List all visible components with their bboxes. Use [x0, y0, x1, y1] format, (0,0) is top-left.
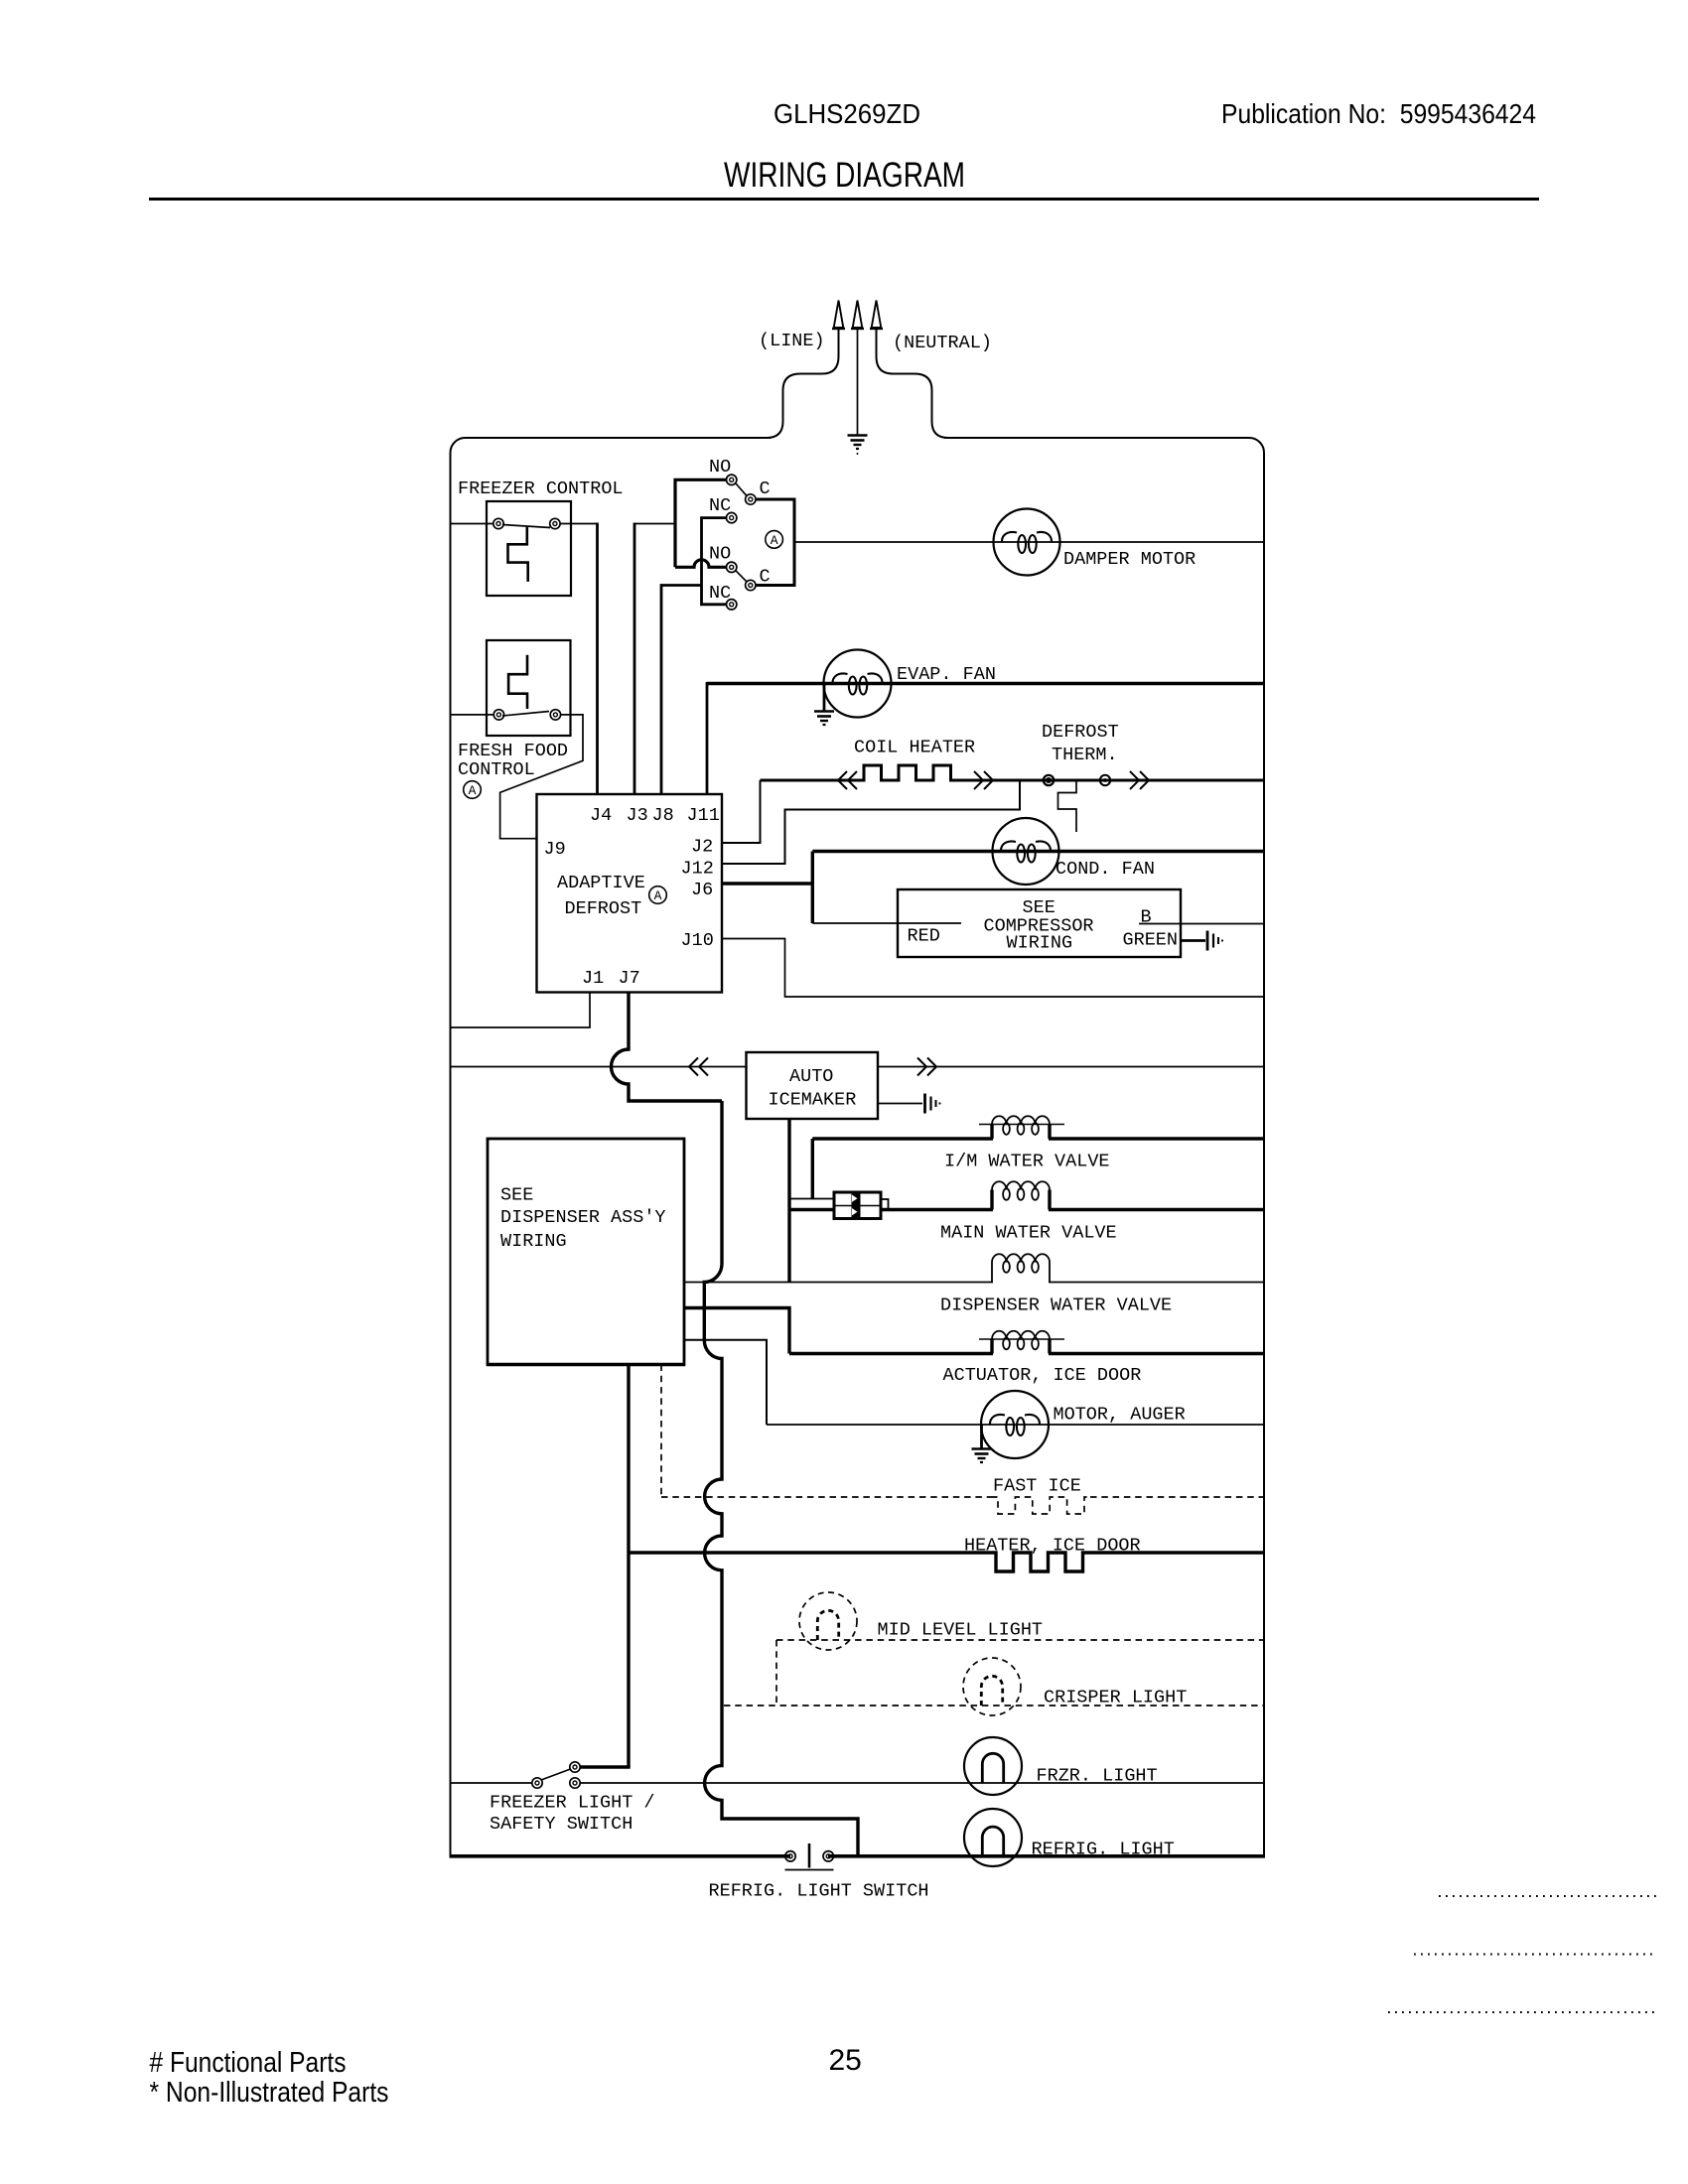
- svg-text:J10: J10: [681, 930, 714, 951]
- earth ground at auger motor: [980, 1425, 983, 1448]
- relay switch 1 C terminal: [746, 494, 756, 504]
- svg-text:GREEN: GREEN: [1123, 930, 1179, 951]
- svg-text:J8: J8: [652, 805, 674, 826]
- freezer control terminal left: [493, 518, 503, 528]
- wire J12 to therm: [722, 780, 1020, 864]
- svg-text:CRISPER LIGHT: CRISPER LIGHT: [1044, 1688, 1187, 1708]
- refrig light switch terminal left: [785, 1851, 795, 1861]
- svg-text:CONTROL: CONTROL: [458, 759, 535, 780]
- actuator ice door coil: [992, 1339, 1050, 1354]
- circled A fresh food: [464, 781, 482, 799]
- enclosure right and top edge: [944, 438, 1264, 1856]
- fresh food thermostat zigzag: [508, 655, 527, 709]
- freezer light lamp: [964, 1737, 1022, 1795]
- svg-text:J6: J6: [691, 880, 713, 900]
- heater ice door line: [629, 1551, 989, 1554]
- freezer control box: [487, 501, 571, 596]
- coil heater resistor: [857, 765, 961, 780]
- svg-text:GLHS269ZD: GLHS269ZD: [774, 98, 920, 129]
- ground prong: [853, 301, 863, 329]
- safety switch blade: [541, 1769, 571, 1780]
- wire J3 vertical: [633, 523, 636, 795]
- I/M water valve line: [812, 1137, 993, 1140]
- wire icemaker to right edge: [878, 1066, 1264, 1068]
- earth ground at plug: [857, 329, 859, 435]
- mid level light dashed circuit: [776, 1640, 1264, 1706]
- wire LINE prong to enclosure: [767, 329, 839, 438]
- safety switch terminal upper: [570, 1762, 580, 1772]
- wire left edge to safety switch: [451, 1782, 533, 1784]
- svg-text:J9: J9: [544, 839, 566, 860]
- LINE prong: [834, 301, 844, 329]
- wire safety switch to heater riser: [580, 1765, 631, 1768]
- freezer control terminal right: [550, 518, 560, 528]
- wire NC net to J8: [661, 586, 702, 795]
- coil heater line left part: [761, 779, 858, 782]
- svg-text:RED: RED: [908, 926, 940, 947]
- connector chevrons right: [974, 771, 993, 789]
- svg-text:C: C: [760, 478, 771, 499]
- check valve outlet tab: [881, 1199, 889, 1210]
- fresh food control box: [487, 640, 571, 736]
- freezer control switch blade: [502, 525, 550, 528]
- wire RED lead: [812, 922, 961, 924]
- wire actuator feed: [684, 1308, 789, 1354]
- dispenser water valve coil: [992, 1263, 1050, 1283]
- svg-text:(LINE): (LINE): [759, 331, 825, 351]
- motor auger line: [767, 1424, 1264, 1426]
- dispenser assembly box: [488, 1139, 684, 1365]
- compressor wiring box: [898, 889, 1181, 957]
- svg-text:MAIN WATER VALVE: MAIN WATER VALVE: [940, 1223, 1117, 1244]
- relay switch 1 NO terminal: [727, 475, 737, 484]
- defrost therm line: [961, 779, 1264, 782]
- dual check valve body: [834, 1192, 881, 1219]
- relay switch 1 blade: [736, 483, 747, 495]
- svg-text:A: A: [771, 533, 778, 548]
- wire check valve top port: [789, 1198, 834, 1200]
- svg-text:J7: J7: [619, 968, 640, 989]
- heater ice door resistor: [989, 1553, 1088, 1571]
- earth ground at evap fan: [823, 684, 826, 712]
- svg-text:COND. FAN: COND. FAN: [1055, 859, 1155, 880]
- wire J6 feed: [722, 852, 812, 924]
- mid level light lamp: [799, 1592, 857, 1650]
- fast ice dashed branch: [661, 1365, 1264, 1515]
- wire J11 vertical: [706, 682, 709, 794]
- svg-text:J1: J1: [582, 968, 604, 989]
- svg-text:J4: J4: [590, 805, 612, 826]
- svg-text:HEATER, ICE DOOR: HEATER, ICE DOOR: [964, 1536, 1141, 1557]
- actuator ice door line: [789, 1352, 993, 1355]
- svg-text:WIRING: WIRING: [1007, 933, 1073, 954]
- freezer control thermostat zigzag: [508, 527, 528, 582]
- svg-text:MOTOR, AUGER: MOTOR, AUGER: [1054, 1405, 1186, 1426]
- relay bracket: [756, 499, 794, 586]
- svg-text:J12: J12: [681, 859, 714, 880]
- svg-text:A: A: [469, 783, 477, 798]
- refrig light lamp: [964, 1809, 1022, 1866]
- safety switch terminal right: [570, 1778, 580, 1788]
- svg-text:MID LEVEL LIGHT: MID LEVEL LIGHT: [878, 1620, 1044, 1641]
- refrig light switch terminal right: [823, 1851, 833, 1861]
- svg-text:DISPENSER WATER VALVE: DISPENSER WATER VALVE: [940, 1296, 1172, 1316]
- chassis ground GREEN: [1206, 931, 1209, 951]
- svg-text:* Non-Illustrated Parts: * Non-Illustrated Parts: [150, 2077, 389, 2109]
- wire fresh food control to J9: [500, 715, 583, 839]
- circled A relay: [766, 531, 783, 549]
- svg-text:A: A: [654, 888, 662, 903]
- connector chevrons icemaker right: [917, 1058, 936, 1076]
- connector chevrons right of therm: [1130, 771, 1149, 789]
- svg-text:# Functional Parts: # Functional Parts: [150, 2047, 347, 2079]
- svg-text:SAFETY SWITCH: SAFETY SWITCH: [490, 1814, 633, 1835]
- header rule: [149, 198, 1539, 201]
- wire auger motor feed: [684, 1340, 767, 1425]
- svg-text:EVAP. FAN: EVAP. FAN: [897, 664, 996, 685]
- svg-text:SEE: SEE: [500, 1185, 533, 1206]
- svg-text:REFRIG. LIGHT: REFRIG. LIGHT: [1032, 1840, 1175, 1860]
- main water valve line: [881, 1208, 993, 1211]
- wire freezer control to J4: [560, 523, 598, 525]
- wire icemaker down to valves: [787, 1119, 790, 1283]
- svg-text:ICEMAKER: ICEMAKER: [769, 1090, 857, 1111]
- svg-text:COIL HEATER: COIL HEATER: [854, 738, 975, 758]
- wire J3 to switch commons: [634, 523, 675, 525]
- wire relay to damper motor to right edge: [794, 541, 1264, 543]
- wire J2 to coil heater: [722, 780, 761, 843]
- wire left edge to freezer control: [451, 523, 494, 525]
- fresh food terminal left: [493, 710, 503, 720]
- wire NEUTRAL prong to enclosure: [877, 329, 949, 438]
- adaptive defrost control box: [537, 794, 723, 993]
- svg-text:WIRING DIAGRAM: WIRING DIAGRAM: [724, 156, 965, 195]
- chassis ground icemaker: [923, 1094, 926, 1114]
- refrigerator trunk wire with hops: [704, 1101, 858, 1854]
- NEUTRAL prong: [872, 301, 882, 329]
- auger motor: [981, 1391, 1049, 1458]
- wire switch NO common with hop: [675, 479, 727, 567]
- auto icemaker box: [747, 1052, 879, 1119]
- svg-text:DEFROST: DEFROST: [565, 898, 642, 919]
- wire NC1 to NC2: [702, 518, 727, 605]
- relay switch 2 NO terminal: [727, 562, 737, 572]
- evap fan line: [707, 682, 1264, 685]
- wire heater riser: [627, 1365, 630, 1768]
- svg-text:DISPENSER ASS'Y: DISPENSER ASS'Y: [500, 1207, 666, 1228]
- svg-text:NO: NO: [709, 457, 731, 478]
- svg-text:J3: J3: [627, 805, 648, 826]
- svg-text:J11: J11: [687, 805, 720, 826]
- svg-text:I/M WATER VALVE: I/M WATER VALVE: [944, 1152, 1110, 1172]
- svg-text:DAMPER MOTOR: DAMPER MOTOR: [1063, 549, 1196, 570]
- wire J10 to right edge: [722, 939, 1264, 998]
- relay switch 2 NC terminal: [727, 600, 737, 610]
- svg-text:FREEZER LIGHT /: FREEZER LIGHT /: [490, 1793, 655, 1814]
- wire J1 to left edge: [451, 993, 591, 1028]
- I/M water valve coil: [992, 1125, 1050, 1140]
- svg-text:AUTO: AUTO: [789, 1066, 833, 1087]
- circled A adaptive defrost: [649, 887, 667, 904]
- safety switch terminal left: [532, 1778, 542, 1788]
- crisper light dashed circuit: [724, 1705, 1264, 1706]
- enclosure bottom edge / refrig light net right part: [828, 1854, 1265, 1858]
- svg-text:J2: J2: [691, 837, 713, 858]
- relay switch 2 C terminal: [746, 580, 756, 590]
- cond fan motor: [993, 818, 1059, 885]
- dispenser water valve line: [684, 1282, 993, 1284]
- defrost therm terminal 2: [1100, 775, 1110, 785]
- svg-text:ADAPTIVE: ADAPTIVE: [557, 873, 645, 893]
- defrost therm terminal 1: [1044, 775, 1054, 785]
- svg-text:FAST ICE: FAST ICE: [993, 1476, 1081, 1497]
- notes dotted line 1: [1439, 1895, 1658, 1897]
- relay switch 1 NC terminal: [727, 512, 737, 522]
- wire I/M valve riser: [811, 1139, 814, 1199]
- wire B lead to right edge: [1139, 923, 1264, 925]
- svg-text:THERM.: THERM.: [1052, 745, 1118, 765]
- connector chevrons left: [838, 771, 857, 789]
- connector chevrons icemaker left: [689, 1058, 708, 1076]
- cond fan line: [812, 850, 1264, 853]
- wire J4 vertical: [596, 523, 599, 795]
- fresh food terminal right: [550, 710, 560, 720]
- refrig light switch plunger: [808, 1843, 811, 1868]
- svg-text:Publication No: 5995436424: Publication No: 5995436424: [1221, 98, 1536, 129]
- damper motor: [994, 509, 1060, 576]
- notes dotted line 2: [1414, 1954, 1657, 1956]
- wire J7 riser with hop over icemaker line: [612, 993, 723, 1102]
- svg-text:DEFROST: DEFROST: [1042, 722, 1119, 743]
- wire GREEN lead: [1181, 939, 1205, 942]
- svg-text:NC: NC: [709, 495, 731, 516]
- crisper light lamp: [963, 1658, 1021, 1715]
- enclosure left and top edge: [451, 438, 772, 1856]
- svg-text:FREEZER CONTROL: FREEZER CONTROL: [458, 478, 624, 499]
- svg-text:FRZR. LIGHT: FRZR. LIGHT: [1037, 1766, 1158, 1787]
- main water valve coil: [992, 1190, 1050, 1210]
- wire left edge to fresh food control: [451, 714, 494, 716]
- icemaker supply line: [451, 1066, 747, 1068]
- fresh food switch blade: [502, 712, 549, 717]
- freezer light line: [580, 1782, 1264, 1784]
- svg-text:NO: NO: [709, 544, 731, 565]
- defrost therm capillary: [1058, 780, 1077, 832]
- wire icemaker ground lead: [878, 1103, 922, 1105]
- svg-text:ACTUATOR, ICE DOOR: ACTUATOR, ICE DOOR: [943, 1365, 1142, 1386]
- evap fan motor: [824, 650, 892, 718]
- svg-text:WIRING: WIRING: [500, 1231, 567, 1252]
- svg-text:25: 25: [829, 2044, 862, 2077]
- enclosure bottom edge / refrig light net left part: [450, 1854, 791, 1858]
- svg-text:(NEUTRAL): (NEUTRAL): [893, 333, 992, 353]
- wire check valve bottom port: [789, 1208, 834, 1211]
- svg-text:REFRIG. LIGHT SWITCH: REFRIG. LIGHT SWITCH: [709, 1881, 929, 1902]
- relay switch 2 blade: [736, 571, 747, 582]
- notes dotted line 3: [1388, 2011, 1656, 2013]
- svg-text:FRESH FOOD: FRESH FOOD: [458, 741, 568, 761]
